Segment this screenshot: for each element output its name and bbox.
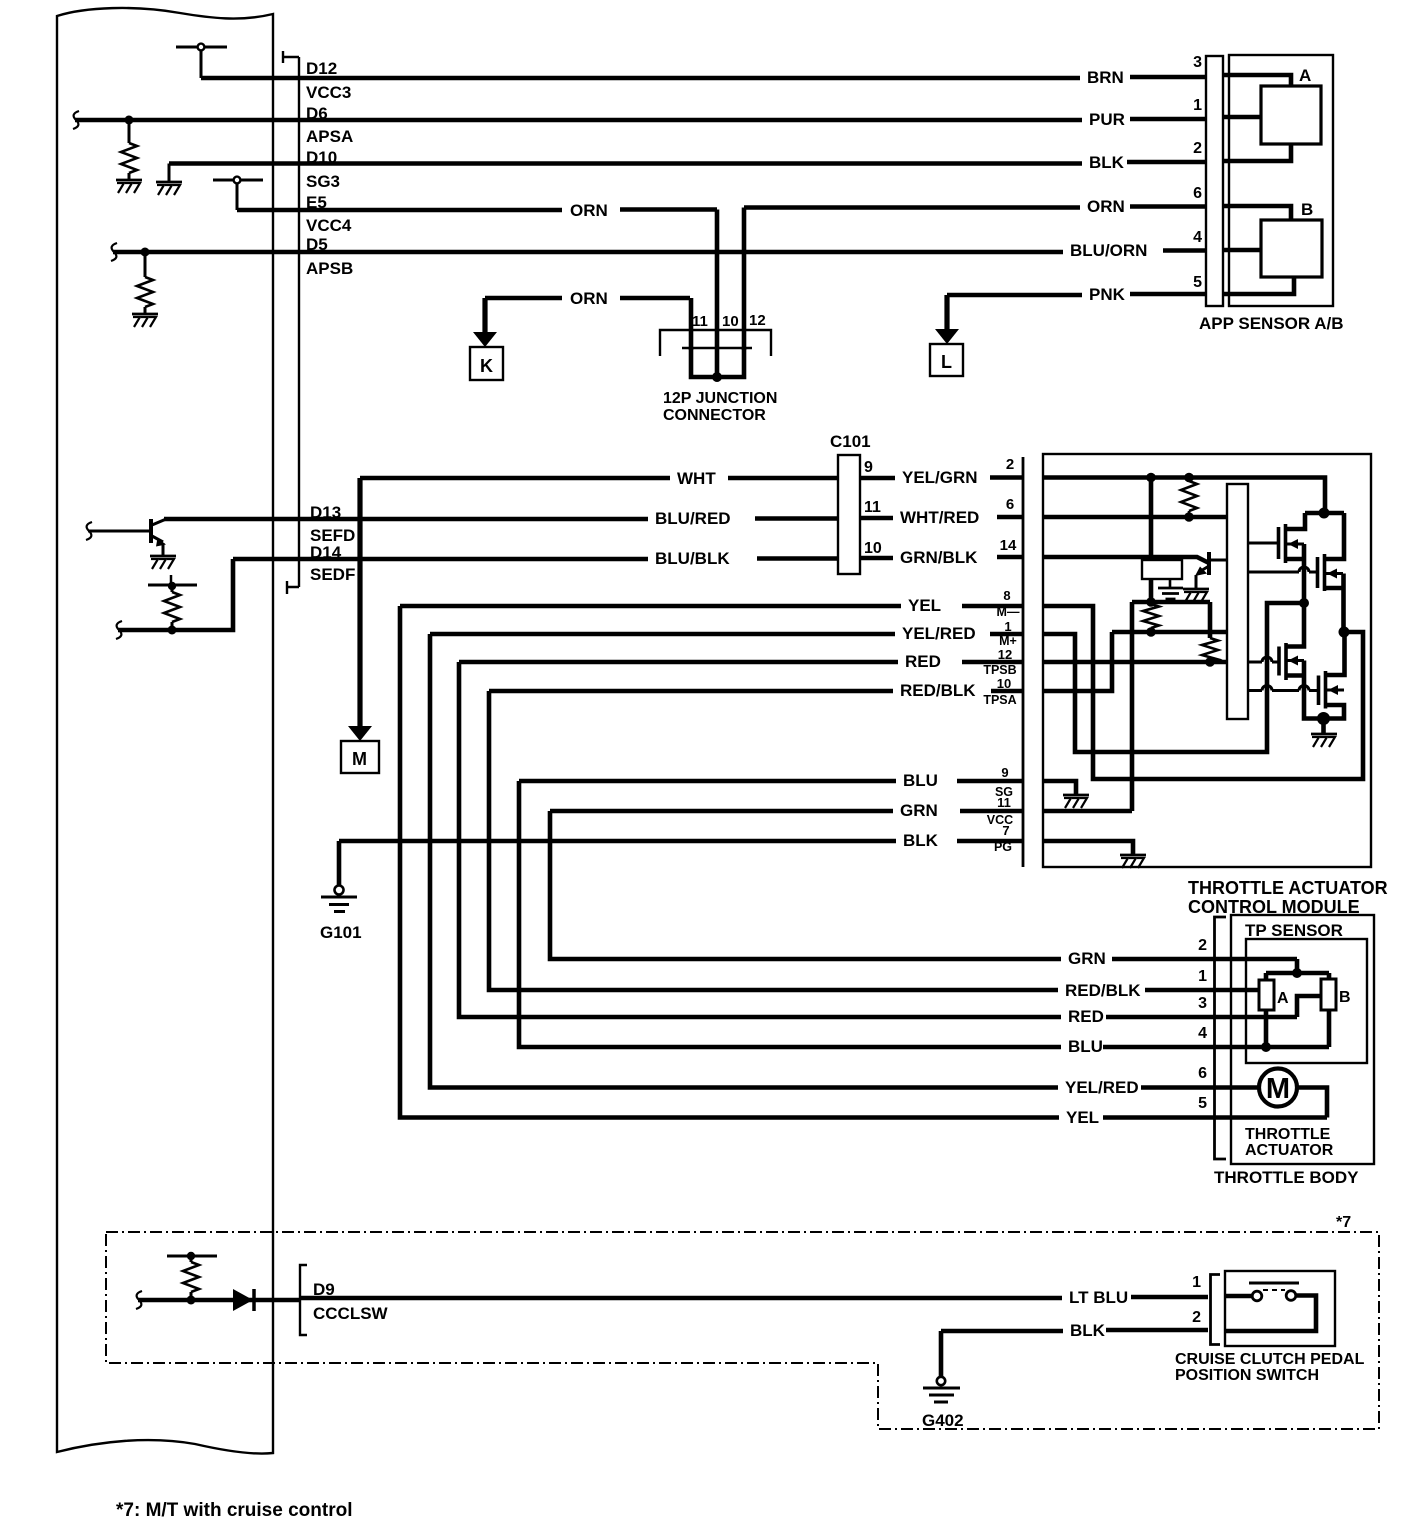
wire D9 inside ECM	[138, 1298, 299, 1303]
svg-text:GRN/BLK: GRN/BLK	[900, 548, 978, 567]
module rail pin 12 TPSB to comb	[1043, 660, 1227, 665]
svg-text:10: 10	[722, 313, 739, 330]
wire GRN (module pin 11 loop to TB pin 2)	[550, 811, 1061, 959]
wire RED/BLK (module pin 10 loop to TB pin 1)	[489, 691, 1058, 990]
svg-text:YEL/RED: YEL/RED	[1065, 1078, 1139, 1097]
svg-text:G402: G402	[922, 1411, 964, 1430]
APP sensor outer box	[1229, 55, 1333, 306]
resistor on SEDF line	[171, 586, 174, 592]
wire pin5 to B bottom	[1223, 277, 1294, 294]
connector C101 body	[838, 455, 860, 574]
wire BLK (D10/SG3 to APP pin 2)	[299, 161, 1082, 166]
svg-text:12: 12	[998, 647, 1012, 662]
wire TP B wiper (pin 3)	[1297, 996, 1321, 1017]
ECM connector face line	[283, 51, 299, 594]
wire motor return (pin 5)	[1297, 1088, 1327, 1118]
transistor Q5 (driver BJT)	[1195, 552, 1229, 589]
svg-text:BLK: BLK	[903, 831, 939, 850]
svg-text:B: B	[1339, 989, 1351, 1006]
wire BLU/RED (D13 to C101 pin 11)	[299, 517, 648, 522]
node R1 bottom on pin6 rail	[1184, 512, 1194, 522]
svg-text:1: 1	[1198, 968, 1207, 985]
arrow into connector M	[348, 726, 372, 741]
throttle body connector bracket	[1215, 917, 1227, 1159]
12P junction connector inner bus	[682, 347, 752, 349]
sensor element A box	[1261, 86, 1321, 144]
APP sensor connector face	[1206, 56, 1223, 306]
svg-text:CRUISE CLUTCH PEDAL: CRUISE CLUTCH PEDAL	[1175, 1351, 1365, 1368]
ground under transistor emitter	[150, 556, 176, 569]
wire D12 inside ECM	[201, 76, 299, 81]
svg-text:RED/BLK: RED/BLK	[1065, 981, 1141, 1000]
wire ORN (junction pin 12 to APP pin 6)	[744, 205, 1080, 210]
resistor on CCCLSW pull-up bar	[167, 1255, 217, 1258]
svg-text:1: 1	[1193, 97, 1202, 114]
svg-text:YEL/GRN: YEL/GRN	[902, 468, 978, 487]
node M- bridge mid	[1339, 627, 1350, 638]
svg-text:APSB: APSB	[306, 259, 353, 278]
node H1/R2	[1146, 597, 1156, 607]
svg-text:BRN: BRN	[1087, 68, 1124, 87]
switch contact right	[1286, 1291, 1296, 1301]
svg-text:1: 1	[1004, 619, 1011, 634]
svg-text:*7: M/T with cruise control: *7: M/T with cruise control	[116, 1500, 352, 1521]
ground under SG3	[156, 182, 182, 195]
wire GRN to TB pin 2	[1112, 957, 1297, 962]
switch return wire	[1225, 1296, 1316, 1332]
svg-text:12P JUNCTION: 12P JUNCTION	[663, 390, 777, 407]
bridge top tie	[1305, 511, 1344, 516]
wire APSA inside ECM	[75, 118, 299, 123]
break tick SEDF return	[116, 621, 122, 639]
module rail pin 6 to comb	[1043, 515, 1227, 520]
wire pin3 to A top	[1223, 75, 1291, 86]
svg-text:6: 6	[1006, 496, 1014, 513]
node on APSA	[125, 116, 134, 125]
ECM box (torn-edge outline)	[57, 8, 273, 1454]
terminal circle on D12 line	[176, 44, 227, 78]
node bridge top	[1319, 508, 1330, 519]
module rail pin 14 to driver base	[1043, 557, 1209, 563]
ground under APSB resistor	[132, 314, 158, 327]
svg-text:BLU/ORN: BLU/ORN	[1070, 241, 1147, 260]
svg-text:LT BLU: LT BLU	[1069, 1288, 1128, 1307]
svg-text:9: 9	[1001, 765, 1008, 780]
node pin2/R1 top	[1184, 473, 1194, 483]
wire D13/SEFD inside ECM	[164, 517, 299, 522]
svg-text:10: 10	[864, 540, 882, 557]
R3 riser from H1	[1208, 602, 1213, 638]
12P junction connector shell	[660, 330, 771, 356]
wire WHT drop to connector M	[357, 478, 362, 731]
wire BLU/ORN (D5/APSB to APP pin 4)	[299, 250, 1063, 255]
wire D14/SEDF inside ECM	[233, 557, 299, 562]
wire junction pin 12 drop	[742, 208, 747, 351]
module rail pin 10 TPSA riser	[1043, 632, 1112, 691]
svg-text:ORN: ORN	[570, 201, 608, 220]
svg-text:PUR: PUR	[1089, 110, 1125, 129]
jumper H1 to VCC riser	[1130, 602, 1135, 811]
resistor R2	[1150, 602, 1153, 604]
node TP top rail	[1292, 968, 1302, 978]
relay ground ladder	[1169, 579, 1172, 587]
terminal circle on VCC4 line	[213, 177, 263, 210]
ground SG	[1063, 795, 1089, 808]
svg-text:VCC3: VCC3	[306, 83, 351, 102]
module rail PG (pin 7) to ground	[1043, 841, 1133, 855]
module stub SG (pin 9) to ground	[1043, 781, 1076, 795]
wire GRN/BLK (C101 to module pin 14)	[861, 556, 893, 561]
ground under APSA resistor	[116, 180, 142, 193]
svg-text:2: 2	[1198, 937, 1207, 954]
node junction bus	[712, 372, 722, 382]
wire WHT (to C101 pin 9)	[360, 476, 670, 481]
comb driver bar	[1227, 484, 1248, 719]
svg-text:BLU/BLK: BLU/BLK	[655, 549, 730, 568]
svg-text:GRN: GRN	[1068, 949, 1106, 968]
TP top rail	[1266, 971, 1329, 976]
relay output stub	[1149, 579, 1154, 602]
wire YEL/GRN (C101 to module pin 2)	[861, 476, 895, 481]
svg-text:PG: PG	[994, 840, 1012, 854]
svg-text:SEDF: SEDF	[310, 565, 355, 584]
D9 connector bracket	[300, 1265, 307, 1335]
dashed M/T cruise region	[106, 1232, 1379, 1429]
wire pin4 to B left	[1223, 248, 1261, 253]
transistor Q4 (FET low side right)	[1248, 632, 1345, 719]
relay feed drop	[1149, 478, 1154, 561]
svg-text:7: 7	[1002, 823, 1009, 838]
wire RED to TB pin 3	[1106, 1015, 1297, 1020]
svg-text:TPSA: TPSA	[983, 693, 1016, 707]
svg-text:ORN: ORN	[570, 289, 608, 308]
svg-text:14: 14	[1000, 537, 1017, 554]
svg-text:WHT: WHT	[677, 469, 716, 488]
svg-text:2: 2	[1193, 140, 1202, 157]
node M+ bridge mid	[1299, 598, 1309, 608]
wire WHT/RED (C101 to module pin 6)	[861, 516, 893, 521]
switch pin1 stub	[1225, 1294, 1252, 1299]
potentiometer B body	[1321, 979, 1336, 1010]
svg-text:ACTUATOR: ACTUATOR	[1245, 1142, 1334, 1159]
cruise switch connector face	[1211, 1275, 1221, 1345]
svg-text:*7: *7	[1336, 1214, 1351, 1231]
svg-text:RED: RED	[1068, 1007, 1104, 1026]
svg-text:A: A	[1299, 66, 1311, 85]
module path M+ (pin 1)	[1043, 603, 1304, 752]
svg-text:K: K	[480, 356, 493, 376]
throttle actuator motor	[1259, 1069, 1297, 1107]
node on D9 wire	[187, 1296, 196, 1305]
wire PNK (APP pin 5 to connector L)	[947, 293, 1082, 298]
potentiometer B leads	[1327, 973, 1332, 979]
svg-text:RED: RED	[905, 652, 941, 671]
svg-text:M+: M+	[999, 634, 1017, 648]
svg-text:B: B	[1301, 200, 1313, 219]
wire BLU/BLK (D14 to C101 pin 10)	[299, 557, 648, 562]
wire RED/BLK to TB pin 1	[1145, 988, 1259, 993]
node R2 bottom on H2	[1146, 627, 1156, 637]
wire BLU (module pin 9 loop to TB pin 4)	[519, 781, 1061, 1047]
svg-text:6: 6	[1193, 185, 1202, 202]
connector M box	[341, 741, 379, 773]
node bridge bottom	[1317, 712, 1330, 725]
wire APSB inside ECM	[113, 250, 299, 255]
svg-text:4: 4	[1198, 1025, 1207, 1042]
cruise switch box	[1225, 1271, 1335, 1346]
sensor element B box	[1261, 220, 1322, 277]
wire ORN (E5 to junction pin 10)	[299, 208, 562, 213]
transistor Q1 (FET high side left)	[1248, 513, 1305, 603]
svg-text:TP SENSOR: TP SENSOR	[1245, 921, 1343, 940]
resistor R3	[1202, 638, 1218, 662]
node TP bottom rail	[1261, 1042, 1271, 1052]
node R3 bottom on TPSB rail	[1205, 657, 1215, 667]
svg-text:D12: D12	[306, 59, 337, 78]
resistor CCCLSW	[190, 1256, 193, 1262]
transistor Q2 (FET high side right)	[1248, 513, 1344, 632]
wire YEL (module pin 8 loop to TB pin 5)	[400, 606, 1059, 1118]
potentiometer A body	[1259, 980, 1274, 1010]
transistor Q inside ECM (NPN to ground)	[86, 519, 166, 556]
wire SG3 inside ECM	[169, 161, 299, 166]
svg-text:5: 5	[1198, 1095, 1207, 1112]
svg-text:BLU: BLU	[903, 771, 938, 790]
throttle actuator control module box	[1043, 454, 1371, 867]
node pin2/relay feed	[1146, 473, 1156, 483]
svg-text:C101: C101	[830, 432, 871, 451]
break tick APSA	[73, 111, 79, 129]
module rail VCC (pin 11)	[1043, 809, 1132, 814]
svg-text:11: 11	[864, 499, 881, 516]
wire RED (module pin 12 loop to TB pin 3)	[459, 662, 1061, 1017]
wire LT BLU (D9 to switch pin 1)	[301, 1296, 1062, 1301]
svg-text:APSA: APSA	[306, 127, 353, 146]
wire BLK (G101 to module pin 7)	[339, 839, 896, 844]
break tick APSB	[111, 243, 117, 261]
wire junction pin 11 drop	[689, 298, 694, 350]
svg-text:9: 9	[864, 459, 873, 476]
switch contact left	[1252, 1291, 1262, 1301]
svg-text:THROTTLE BODY: THROTTLE BODY	[1214, 1168, 1359, 1187]
svg-text:2: 2	[1006, 456, 1014, 473]
svg-text:11: 11	[692, 313, 708, 330]
svg-text:12: 12	[749, 312, 766, 329]
svg-text:CCCLSW: CCCLSW	[313, 1304, 389, 1323]
arrow into connector K	[482, 298, 487, 334]
ground PG	[1120, 855, 1146, 868]
svg-text:M—: M—	[997, 605, 1020, 619]
svg-text:YEL: YEL	[1066, 1108, 1099, 1127]
wire YEL/RED to TB pin 6	[1141, 1085, 1259, 1090]
svg-text:10: 10	[997, 676, 1011, 691]
TP sensor box	[1246, 939, 1367, 1063]
svg-text:THROTTLE ACTUATOR: THROTTLE ACTUATOR	[1188, 878, 1388, 898]
node on SEDF return wire	[168, 626, 177, 635]
svg-text:BLK: BLK	[1089, 153, 1125, 172]
svg-text:M: M	[1266, 1073, 1290, 1105]
svg-text:6: 6	[1198, 1065, 1207, 1082]
wire BLU to TB pin 4	[1103, 1045, 1329, 1050]
wire TP supply (pin 2)	[1295, 959, 1300, 973]
svg-text:A: A	[1277, 990, 1289, 1007]
svg-text:YEL/RED: YEL/RED	[902, 624, 976, 643]
svg-text:THROTTLE: THROTTLE	[1245, 1126, 1331, 1143]
svg-text:3: 3	[1198, 995, 1207, 1012]
svg-text:G101: G101	[320, 923, 362, 942]
module connector face line	[1022, 457, 1025, 867]
module supply rail from pin 2	[1043, 478, 1325, 514]
ground under Q5 emitter	[1183, 589, 1209, 602]
svg-text:SG3: SG3	[306, 172, 340, 191]
svg-text:WHT/RED: WHT/RED	[900, 508, 979, 527]
connector K box	[470, 347, 503, 380]
svg-text:CONNECTOR: CONNECTOR	[663, 407, 766, 424]
ground G402	[939, 1331, 944, 1377]
node at CCCLSW resistor top	[187, 1252, 195, 1260]
ground G101	[337, 841, 342, 886]
ground bridge	[1321, 719, 1326, 735]
svg-text:L: L	[941, 352, 952, 372]
diode on D9 wire	[233, 1289, 253, 1311]
svg-text:M: M	[352, 749, 367, 769]
svg-text:4: 4	[1193, 229, 1202, 246]
arrow into connector L	[944, 295, 949, 331]
svg-text:YEL: YEL	[908, 596, 941, 615]
svg-text:8: 8	[1003, 588, 1010, 603]
wire YEL/RED (module pin 1 loop to TB pin 6)	[430, 634, 1058, 1088]
wire SEDF return	[118, 559, 233, 630]
wire pin2 to A bottom	[1223, 144, 1291, 161]
svg-text:PNK: PNK	[1089, 285, 1126, 304]
transistor Q3 (FET low side left)	[1248, 603, 1324, 719]
module path M- (pin 8)	[1043, 606, 1363, 779]
svg-text:TPSB: TPSB	[983, 663, 1016, 677]
SEDF pull resistor stub bar	[148, 584, 197, 587]
ground stem on SG3	[168, 164, 171, 183]
potentiometer A leads	[1264, 973, 1269, 980]
wire BRN (D12 to APP pin 3)	[299, 76, 1080, 81]
wire pin6 to B top	[1223, 206, 1291, 220]
switch blade	[1249, 1282, 1299, 1285]
resistor on APSA pulldown	[128, 120, 131, 143]
resistor R1	[1181, 481, 1197, 511]
svg-text:APP SENSOR A/B: APP SENSOR A/B	[1199, 314, 1344, 333]
svg-text:BLK: BLK	[1070, 1321, 1106, 1340]
connector L box	[930, 344, 963, 376]
svg-text:GRN: GRN	[900, 801, 938, 820]
wire BLK (switch pin 2 to G402)	[941, 1329, 1063, 1334]
throttle body box	[1231, 915, 1374, 1164]
svg-text:3: 3	[1193, 54, 1202, 71]
wire junction pin 10 drop	[715, 210, 720, 378]
break tick D9	[136, 1291, 142, 1309]
svg-text:POSITION SWITCH: POSITION SWITCH	[1175, 1367, 1319, 1384]
wire VCC4/E5 inside ECM	[237, 208, 299, 213]
svg-text:1: 1	[1192, 1274, 1201, 1291]
svg-text:ORN: ORN	[1087, 197, 1125, 216]
svg-text:2: 2	[1192, 1309, 1201, 1326]
wire PUR (D6/APSA to APP pin 1)	[299, 118, 1082, 123]
relay box	[1142, 560, 1182, 579]
wire pin1 to A left	[1223, 115, 1261, 120]
svg-text:11: 11	[997, 795, 1011, 810]
svg-text:BLU/RED: BLU/RED	[655, 509, 731, 528]
resistor on APSB pulldown	[144, 252, 147, 277]
svg-text:RED/BLK: RED/BLK	[900, 681, 976, 700]
svg-text:BLU: BLU	[1068, 1037, 1103, 1056]
svg-text:VCC4: VCC4	[306, 216, 352, 235]
node on APSB	[141, 248, 150, 257]
rail H1 (relay output)	[1132, 600, 1210, 605]
rail H2	[1112, 630, 1227, 635]
wire YEL to TB pin 5	[1103, 1115, 1327, 1120]
node at resistor top	[168, 582, 176, 590]
svg-text:5: 5	[1193, 274, 1202, 291]
switch dashed open-contact line	[1263, 1289, 1285, 1291]
wire ORN (junction pin 11 to connector K)	[485, 296, 562, 301]
